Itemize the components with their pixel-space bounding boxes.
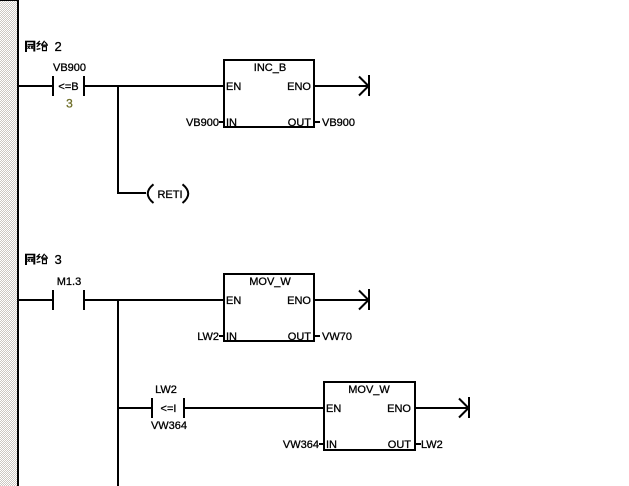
svg-text:VB900: VB900 [186, 117, 219, 129]
svg-text:OUT: OUT [288, 331, 312, 343]
svg-text:3: 3 [55, 252, 62, 267]
svg-text:VB900: VB900 [322, 117, 355, 129]
svg-text:<=B: <=B [58, 81, 78, 93]
svg-text:EN: EN [326, 403, 341, 415]
svg-text:EN: EN [226, 81, 241, 93]
svg-text:2: 2 [55, 39, 62, 54]
svg-text:M1.3: M1.3 [57, 276, 81, 288]
svg-text:IN: IN [226, 117, 237, 129]
svg-text:LW2: LW2 [197, 331, 219, 343]
svg-text:IN: IN [226, 331, 237, 343]
svg-text:OUT: OUT [388, 439, 412, 451]
svg-text:ENO: ENO [287, 81, 311, 93]
svg-text:INC_B: INC_B [254, 62, 286, 74]
svg-text:RETI: RETI [157, 189, 182, 201]
svg-text:VW364: VW364 [283, 439, 319, 451]
svg-text:VW364: VW364 [151, 420, 187, 432]
svg-text:VB900: VB900 [53, 62, 86, 74]
svg-text:ENO: ENO [387, 403, 411, 415]
svg-text:VW70: VW70 [322, 331, 352, 343]
svg-text:LW2: LW2 [421, 439, 443, 451]
svg-text:IN: IN [326, 439, 337, 451]
svg-text:3: 3 [66, 97, 73, 111]
svg-text:EN: EN [226, 295, 241, 307]
svg-text:OUT: OUT [288, 117, 312, 129]
svg-text:MOV_W: MOV_W [348, 384, 390, 396]
svg-text:<=I: <=I [161, 403, 177, 415]
svg-text:LW2: LW2 [155, 384, 177, 396]
svg-text:MOV_W: MOV_W [249, 276, 291, 288]
svg-text:ENO: ENO [287, 295, 311, 307]
